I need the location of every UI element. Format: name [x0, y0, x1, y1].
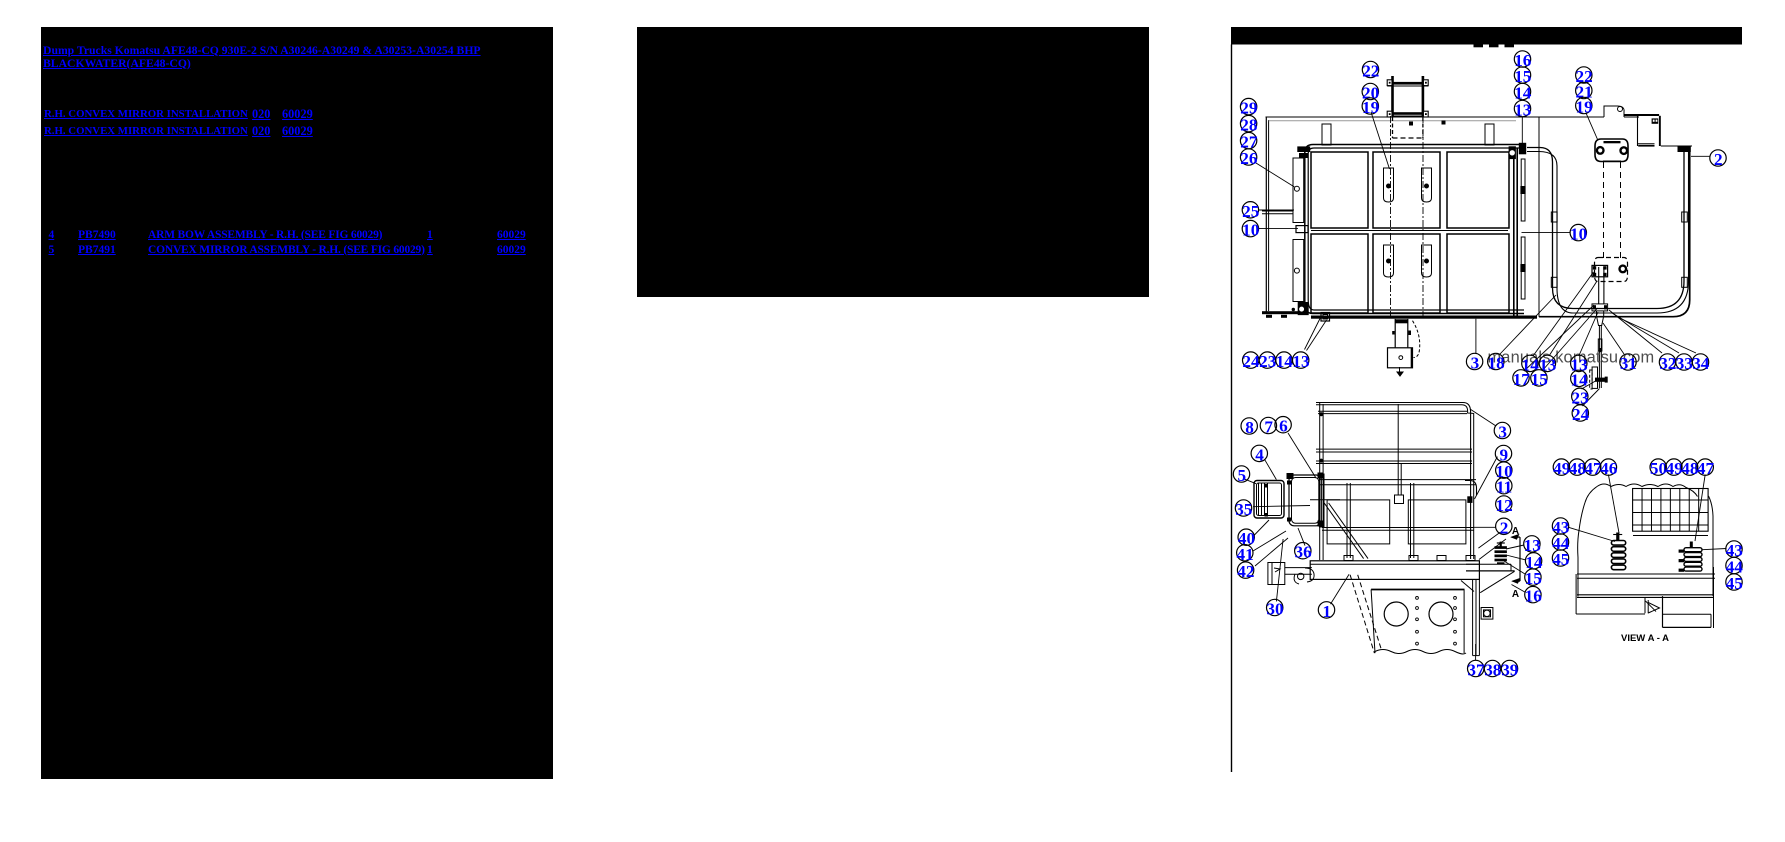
panel r1c1 — [1311, 152, 1368, 228]
notch dash 3 — [1505, 45, 1515, 48]
mid rail fitting — [1395, 495, 1404, 504]
callout 26 — [1240, 149, 1256, 165]
leader 13-right — [1506, 545, 1524, 549]
callout 43 — [1552, 518, 1568, 534]
leader 30 — [1276, 539, 1283, 601]
svg-text:24: 24 — [1572, 405, 1590, 424]
leader 5 — [1244, 479, 1256, 484]
panel r2c2 — [1373, 234, 1440, 313]
bow attach tab top — [1519, 143, 1526, 155]
top right box corner block — [1652, 118, 1659, 123]
callout 40 — [1238, 529, 1254, 545]
bracket bolt r2 right — [1425, 259, 1429, 263]
section arrow top line — [1512, 536, 1520, 538]
arm clamp top-left foot — [1287, 473, 1294, 479]
leader 13-top vertical — [1521, 117, 1523, 143]
svg-text:39: 39 — [1501, 661, 1518, 680]
leader 24b — [1583, 389, 1600, 407]
leader 4 — [1265, 459, 1277, 479]
rod cone fitting — [1597, 311, 1604, 326]
leader 37 — [1475, 644, 1477, 660]
arm top bracket bolt R — [1620, 147, 1628, 155]
section line A-A — [1519, 537, 1521, 581]
callout 3 — [1466, 353, 1482, 369]
callout 27 — [1240, 132, 1256, 148]
plate hole L — [1384, 602, 1408, 626]
arm bow tube inner — [1527, 152, 1689, 314]
bolt dot col2 — [1454, 630, 1457, 633]
deck center-right seam 1 — [1513, 148, 1515, 319]
AA grating horizontal bars — [1633, 499, 1709, 501]
tow hook lower — [1294, 574, 1299, 584]
section arrow bottom head — [1513, 579, 1520, 584]
callout 37 — [1468, 660, 1484, 676]
callout 47 — [1585, 459, 1601, 475]
spring base — [1497, 562, 1505, 564]
svg-text:23: 23 — [1259, 352, 1276, 371]
leader 17 — [1524, 305, 1594, 371]
rod lower side strip — [1590, 370, 1592, 389]
side bracket hole — [1484, 610, 1490, 616]
AA deck line 3 — [1577, 594, 1714, 596]
svg-text:38: 38 — [1484, 661, 1502, 680]
AA center bracket left — [1644, 597, 1646, 613]
deck center-right seam 2 — [1516, 148, 1518, 319]
plate hole R — [1429, 602, 1453, 626]
callout 38 — [1484, 660, 1500, 676]
svg-text:2: 2 — [1714, 150, 1723, 169]
callout 13 — [1539, 355, 1555, 371]
roof rail 2b — [1318, 413, 1467, 415]
deck top small square 2 — [1442, 121, 1446, 125]
lower rail right end bolt — [1467, 496, 1472, 503]
leader 13b — [1549, 281, 1597, 356]
mid post upper — [1397, 404, 1399, 463]
svg-text:25: 25 — [1242, 202, 1259, 221]
pump hanger tab R — [1408, 331, 1411, 336]
bow tube collar left 1 — [1551, 212, 1557, 222]
panel r1c3 — [1447, 152, 1509, 228]
diagram frame left border — [1231, 45, 1233, 773]
deck right+bottom edge — [1539, 146, 1690, 317]
frame corner square BL — [1387, 111, 1392, 117]
post A-1 — [1346, 483, 1348, 558]
svg-text:17: 17 — [1513, 370, 1531, 389]
lower mid rail b — [1322, 529, 1474, 531]
svg-text:41: 41 — [1237, 545, 1254, 564]
rod T-bar end — [1605, 377, 1608, 383]
mirror frame post right — [1422, 76, 1425, 118]
leader 16-right — [1512, 585, 1525, 593]
flag bracket hole — [1618, 107, 1623, 112]
rod lower left — [1598, 326, 1600, 389]
corner block hole 2 — [1656, 120, 1658, 122]
left panel strip upper — [1293, 158, 1304, 223]
deck left edge inner — [1268, 120, 1270, 311]
AA step bottom edge — [1663, 626, 1712, 628]
svg-text:15: 15 — [1531, 370, 1548, 389]
mirror frame top bar thin line — [1387, 85, 1428, 87]
rod lower plate — [1592, 367, 1597, 388]
bow right cap tab — [1678, 146, 1691, 152]
tow box mark — [1274, 568, 1280, 572]
svg-text:A: A — [1512, 526, 1519, 537]
deck top edge — [1266, 116, 1605, 118]
leader 33 — [1612, 313, 1679, 353]
notch dash 2 — [1489, 45, 1499, 48]
callout 18 — [1488, 353, 1504, 369]
roof rail outer — [1316, 403, 1471, 560]
arm bow front inner — [1292, 478, 1319, 524]
mirror head — [1254, 481, 1284, 519]
AA left spring stem tick — [1613, 534, 1622, 536]
callout 19 — [1576, 97, 1592, 113]
callout 20 — [1362, 83, 1378, 99]
svg-text:19: 19 — [1576, 98, 1593, 117]
leader 35 — [1253, 506, 1310, 507]
section arrow bottom line — [1513, 580, 1520, 582]
seam tab upper — [1520, 186, 1525, 194]
leader 13a fan2 — [1307, 320, 1327, 351]
arm link rod — [1310, 499, 1340, 501]
bracket bolt r2 left — [1387, 259, 1391, 263]
AA lower right edge — [1713, 567, 1715, 628]
callout 39 — [1501, 660, 1517, 676]
bracket slot r2 left — [1384, 245, 1394, 277]
rod T-bar — [1595, 378, 1607, 382]
tow hook — [1305, 568, 1314, 582]
title link — [43, 44, 481, 70]
AA lower bottom edge left — [1576, 613, 1645, 615]
corner block hole 1 — [1653, 120, 1655, 122]
AA right spring disc 1 — [1684, 548, 1702, 552]
panel r2c1 — [1311, 234, 1368, 313]
callout 2 — [1496, 518, 1512, 534]
svg-text:11: 11 — [1496, 478, 1512, 497]
callout 48 — [1681, 459, 1697, 475]
top post left — [1322, 124, 1331, 145]
mirror rib 1 — [1258, 483, 1260, 516]
spring disc 4 — [1495, 559, 1507, 562]
notch dash 1 — [1474, 45, 1484, 48]
pump hanger tab L — [1392, 331, 1395, 335]
callout 45 — [1552, 550, 1568, 566]
leader 19-right — [1586, 113, 1598, 141]
handrail bottom-left corner clamp — [1298, 303, 1308, 315]
deck band — [1310, 561, 1479, 580]
tow pin — [1298, 573, 1304, 579]
AA left spring disc 1 — [1611, 541, 1625, 546]
AA grating frame — [1633, 489, 1709, 532]
frame corner square TR — [1423, 80, 1428, 86]
svg-text:24: 24 — [1242, 352, 1260, 371]
pump box right edge — [1411, 348, 1413, 368]
leader 32 — [1609, 310, 1662, 353]
AA left spring disc 4 — [1611, 559, 1625, 564]
rod sleeve — [1598, 339, 1602, 351]
left pillar b — [1322, 404, 1324, 472]
right section seam — [1538, 117, 1540, 317]
callout 35 — [1235, 500, 1251, 516]
svg-text:5: 5 — [1238, 466, 1247, 485]
window panel L — [1327, 500, 1390, 544]
AA right spring disc 5 — [1684, 567, 1702, 571]
right member b — [1475, 579, 1477, 655]
handrail corner bracket inner — [1323, 315, 1328, 320]
svg-text:A: A — [1512, 589, 1519, 600]
spring bolt stem — [1500, 542, 1502, 547]
table row item 5 — [49, 244, 55, 256]
seam channel lower — [1521, 237, 1525, 299]
svg-text:6: 6 — [1279, 417, 1288, 436]
leader 31 — [1603, 323, 1624, 354]
top right box left edge — [1637, 116, 1639, 146]
arm top bracket lower line — [1603, 160, 1621, 162]
arm bow tube outer — [1527, 148, 1684, 309]
arm bow front — [1289, 475, 1321, 526]
pump box hole — [1399, 356, 1403, 360]
leader 23b — [1582, 381, 1596, 389]
plate left edge — [1371, 590, 1375, 654]
callout 42 — [1237, 562, 1253, 578]
brace b — [1329, 503, 1368, 559]
bolt dot col2 — [1454, 618, 1457, 621]
side bracket inner — [1484, 610, 1491, 617]
mirror frame top bar — [1387, 82, 1428, 85]
deck bottom dot — [1292, 308, 1294, 310]
pivot bolt — [1593, 266, 1596, 269]
AA right spring tab 2 — [1679, 559, 1685, 562]
callout 14 — [1525, 553, 1541, 569]
mirror frame bottom bar — [1387, 112, 1428, 115]
callout 14 — [1276, 352, 1292, 368]
deck-to-member diagonal — [1461, 581, 1474, 592]
svg-text:15: 15 — [1525, 569, 1542, 588]
AA center bracket flag — [1648, 603, 1659, 614]
arm mount plate — [1320, 474, 1325, 527]
arm top bracket bolt L — [1596, 146, 1604, 154]
diagram frame top black bar — [1231, 27, 1742, 45]
left pillar a — [1319, 402, 1321, 472]
callout 12 — [1496, 496, 1512, 512]
roof rail 2a — [1318, 410, 1467, 412]
mid rail 2a — [1316, 460, 1472, 462]
post foot — [1409, 556, 1418, 561]
support diagonal a — [1350, 575, 1374, 653]
leader 43-left — [1569, 527, 1616, 541]
svg-text:19: 19 — [1362, 98, 1379, 117]
side bracket — [1481, 608, 1493, 620]
callout 11 — [1496, 478, 1512, 494]
leader 10-left — [1259, 228, 1299, 230]
spring disc 3 — [1495, 555, 1507, 558]
mid rail 1a — [1316, 448, 1472, 450]
roof bolt 1 — [1320, 413, 1323, 416]
pump hanger top bar — [1395, 319, 1408, 323]
callout 15 — [1514, 67, 1530, 83]
callout 8 — [1241, 418, 1257, 434]
callout 36 — [1295, 543, 1311, 559]
arm bottom bracket — [1595, 258, 1628, 282]
step diagonal — [1480, 571, 1514, 592]
callout 31 — [1620, 354, 1636, 370]
window panel R — [1408, 500, 1466, 544]
leader 34 — [1615, 316, 1696, 353]
AA right spring disc 2 — [1684, 553, 1702, 557]
bracket slot r1 right — [1422, 168, 1432, 202]
pump hanger right — [1407, 319, 1409, 348]
AA cloud right edge — [1709, 496, 1714, 596]
svg-text:42: 42 — [1237, 562, 1254, 581]
leader 13-front extra — [1479, 539, 1506, 560]
AA line under grating — [1633, 535, 1708, 537]
callout 7 — [1260, 417, 1276, 433]
svg-text:3: 3 — [1498, 423, 1507, 442]
deck top small square 1 — [1409, 122, 1413, 126]
callout 32 — [1659, 354, 1675, 370]
callout 16 — [1525, 586, 1541, 602]
callout 43 — [1726, 541, 1742, 557]
rod sleeve band — [1599, 348, 1602, 352]
frame corner dot TR — [1425, 82, 1427, 84]
mirror head inner — [1257, 483, 1282, 516]
callout 16 — [1514, 51, 1530, 67]
top right box inner bottom — [1638, 143, 1655, 145]
bracket slot r1 left — [1384, 168, 1394, 202]
AA left spring disc 2 — [1611, 547, 1625, 552]
leader 26 — [1256, 163, 1295, 187]
svg-text:33: 33 — [1676, 354, 1693, 373]
leader 10-right — [1522, 232, 1571, 234]
AA right spring tab 3 — [1679, 569, 1685, 572]
callout 17 — [1513, 370, 1529, 386]
right member c — [1478, 579, 1480, 655]
left handrail inner — [1308, 148, 1524, 310]
post foot — [1466, 556, 1475, 561]
AA right spring tab 1 — [1679, 550, 1685, 553]
AA cloud top edge — [1597, 484, 1698, 497]
frame corner dot BR — [1425, 113, 1427, 115]
svg-text:2: 2 — [1500, 518, 1509, 537]
svg-text:31: 31 — [1620, 354, 1637, 373]
callout 10 — [1496, 462, 1512, 478]
leader 19-left to bracket — [1371, 112, 1390, 169]
pivot rod left — [1598, 267, 1600, 304]
plate torn bottom edge — [1375, 650, 1466, 654]
leader 13c column — [1579, 312, 1598, 356]
pivot bolt — [1603, 266, 1606, 269]
leader 43-right — [1702, 549, 1726, 550]
bolt dot col2 — [1454, 607, 1457, 610]
lower mid rail a — [1322, 527, 1474, 529]
svg-text:36: 36 — [1295, 543, 1313, 562]
callout 48 — [1569, 459, 1585, 475]
svg-text:47: 47 — [1697, 459, 1715, 478]
svg-text:37: 37 — [1467, 661, 1485, 680]
seam channel upper — [1521, 159, 1525, 221]
callout 15 — [1531, 370, 1547, 386]
arm top bracket bar — [1604, 141, 1621, 143]
bolt dot col1 — [1416, 642, 1419, 645]
seam tab lower — [1520, 264, 1525, 272]
arm bottom bracket bolt R — [1619, 265, 1627, 273]
bracket slot r2 right — [1422, 245, 1432, 277]
pump arrow tip — [1397, 372, 1403, 376]
lower rail right end cap — [1465, 481, 1477, 496]
bolt circle upper (item 26 target) — [1294, 186, 1299, 191]
callout 1 — [1318, 602, 1334, 618]
right member a — [1472, 579, 1474, 655]
callout 49 — [1666, 459, 1682, 475]
mid rail 2b — [1316, 463, 1472, 465]
svg-text:13: 13 — [1292, 352, 1309, 371]
post B2 — [1400, 464, 1402, 496]
arm bottom bracket bolt R hole — [1621, 267, 1624, 270]
svg-text:46: 46 — [1600, 459, 1618, 478]
callout 5 — [1233, 466, 1249, 482]
callout 44 — [1726, 557, 1742, 573]
svg-text:1: 1 — [1323, 602, 1332, 621]
mirror rib 3 — [1264, 483, 1266, 516]
callout 10 — [1242, 220, 1258, 236]
corner clamp hole — [1300, 307, 1304, 311]
section link row 2 — [44, 125, 248, 137]
svg-text:14: 14 — [1276, 352, 1294, 371]
svg-text:32: 32 — [1659, 354, 1676, 373]
AA right spring disc 4 — [1684, 562, 1702, 566]
svg-text:13: 13 — [1514, 101, 1531, 120]
left section mid band a — [1262, 210, 1293, 212]
AA step top edge — [1663, 613, 1712, 615]
frame corner dot TL — [1389, 82, 1391, 84]
mirror rib 2 — [1261, 483, 1263, 516]
handrail right end clamp — [1509, 146, 1516, 159]
AA center vertical — [1662, 596, 1664, 627]
mirror bolt top — [1265, 484, 1269, 488]
leader 1 — [1331, 574, 1350, 604]
post foot — [1344, 556, 1353, 561]
callout 23 — [1572, 388, 1588, 404]
callout 14 — [1571, 370, 1587, 386]
callout 13 — [1514, 100, 1530, 116]
arm dashed left — [1603, 162, 1605, 258]
deck mid band — [1311, 230, 1508, 232]
panel r2c3 — [1447, 234, 1509, 313]
callout 44 — [1552, 534, 1568, 550]
leader 9 — [1475, 457, 1498, 499]
callout 13 — [1571, 355, 1587, 371]
bracket bolt r1 left — [1387, 184, 1391, 188]
tow box inner line — [1271, 563, 1273, 585]
pump hanger left — [1394, 319, 1396, 348]
svg-text:18: 18 — [1488, 354, 1506, 373]
mirror frame bottom bar thin line — [1387, 115, 1428, 117]
callout 13 — [1524, 536, 1540, 552]
deck bottom thick edge — [1311, 316, 1537, 319]
AA step right edge — [1710, 614, 1712, 627]
pump cable — [1413, 321, 1420, 358]
top right box right edge — [1659, 116, 1661, 146]
arm top bracket — [1595, 139, 1628, 162]
frame corner square BR — [1423, 111, 1428, 117]
AA grating vertical bars — [1641, 489, 1643, 532]
arm clamp bottom-right foot — [1318, 521, 1324, 527]
bolt dot col2 — [1454, 597, 1457, 600]
callout 28 — [1240, 115, 1256, 131]
svg-text:34: 34 — [1692, 354, 1710, 373]
svg-text:12: 12 — [1496, 496, 1513, 515]
tow bar b — [1285, 573, 1312, 575]
